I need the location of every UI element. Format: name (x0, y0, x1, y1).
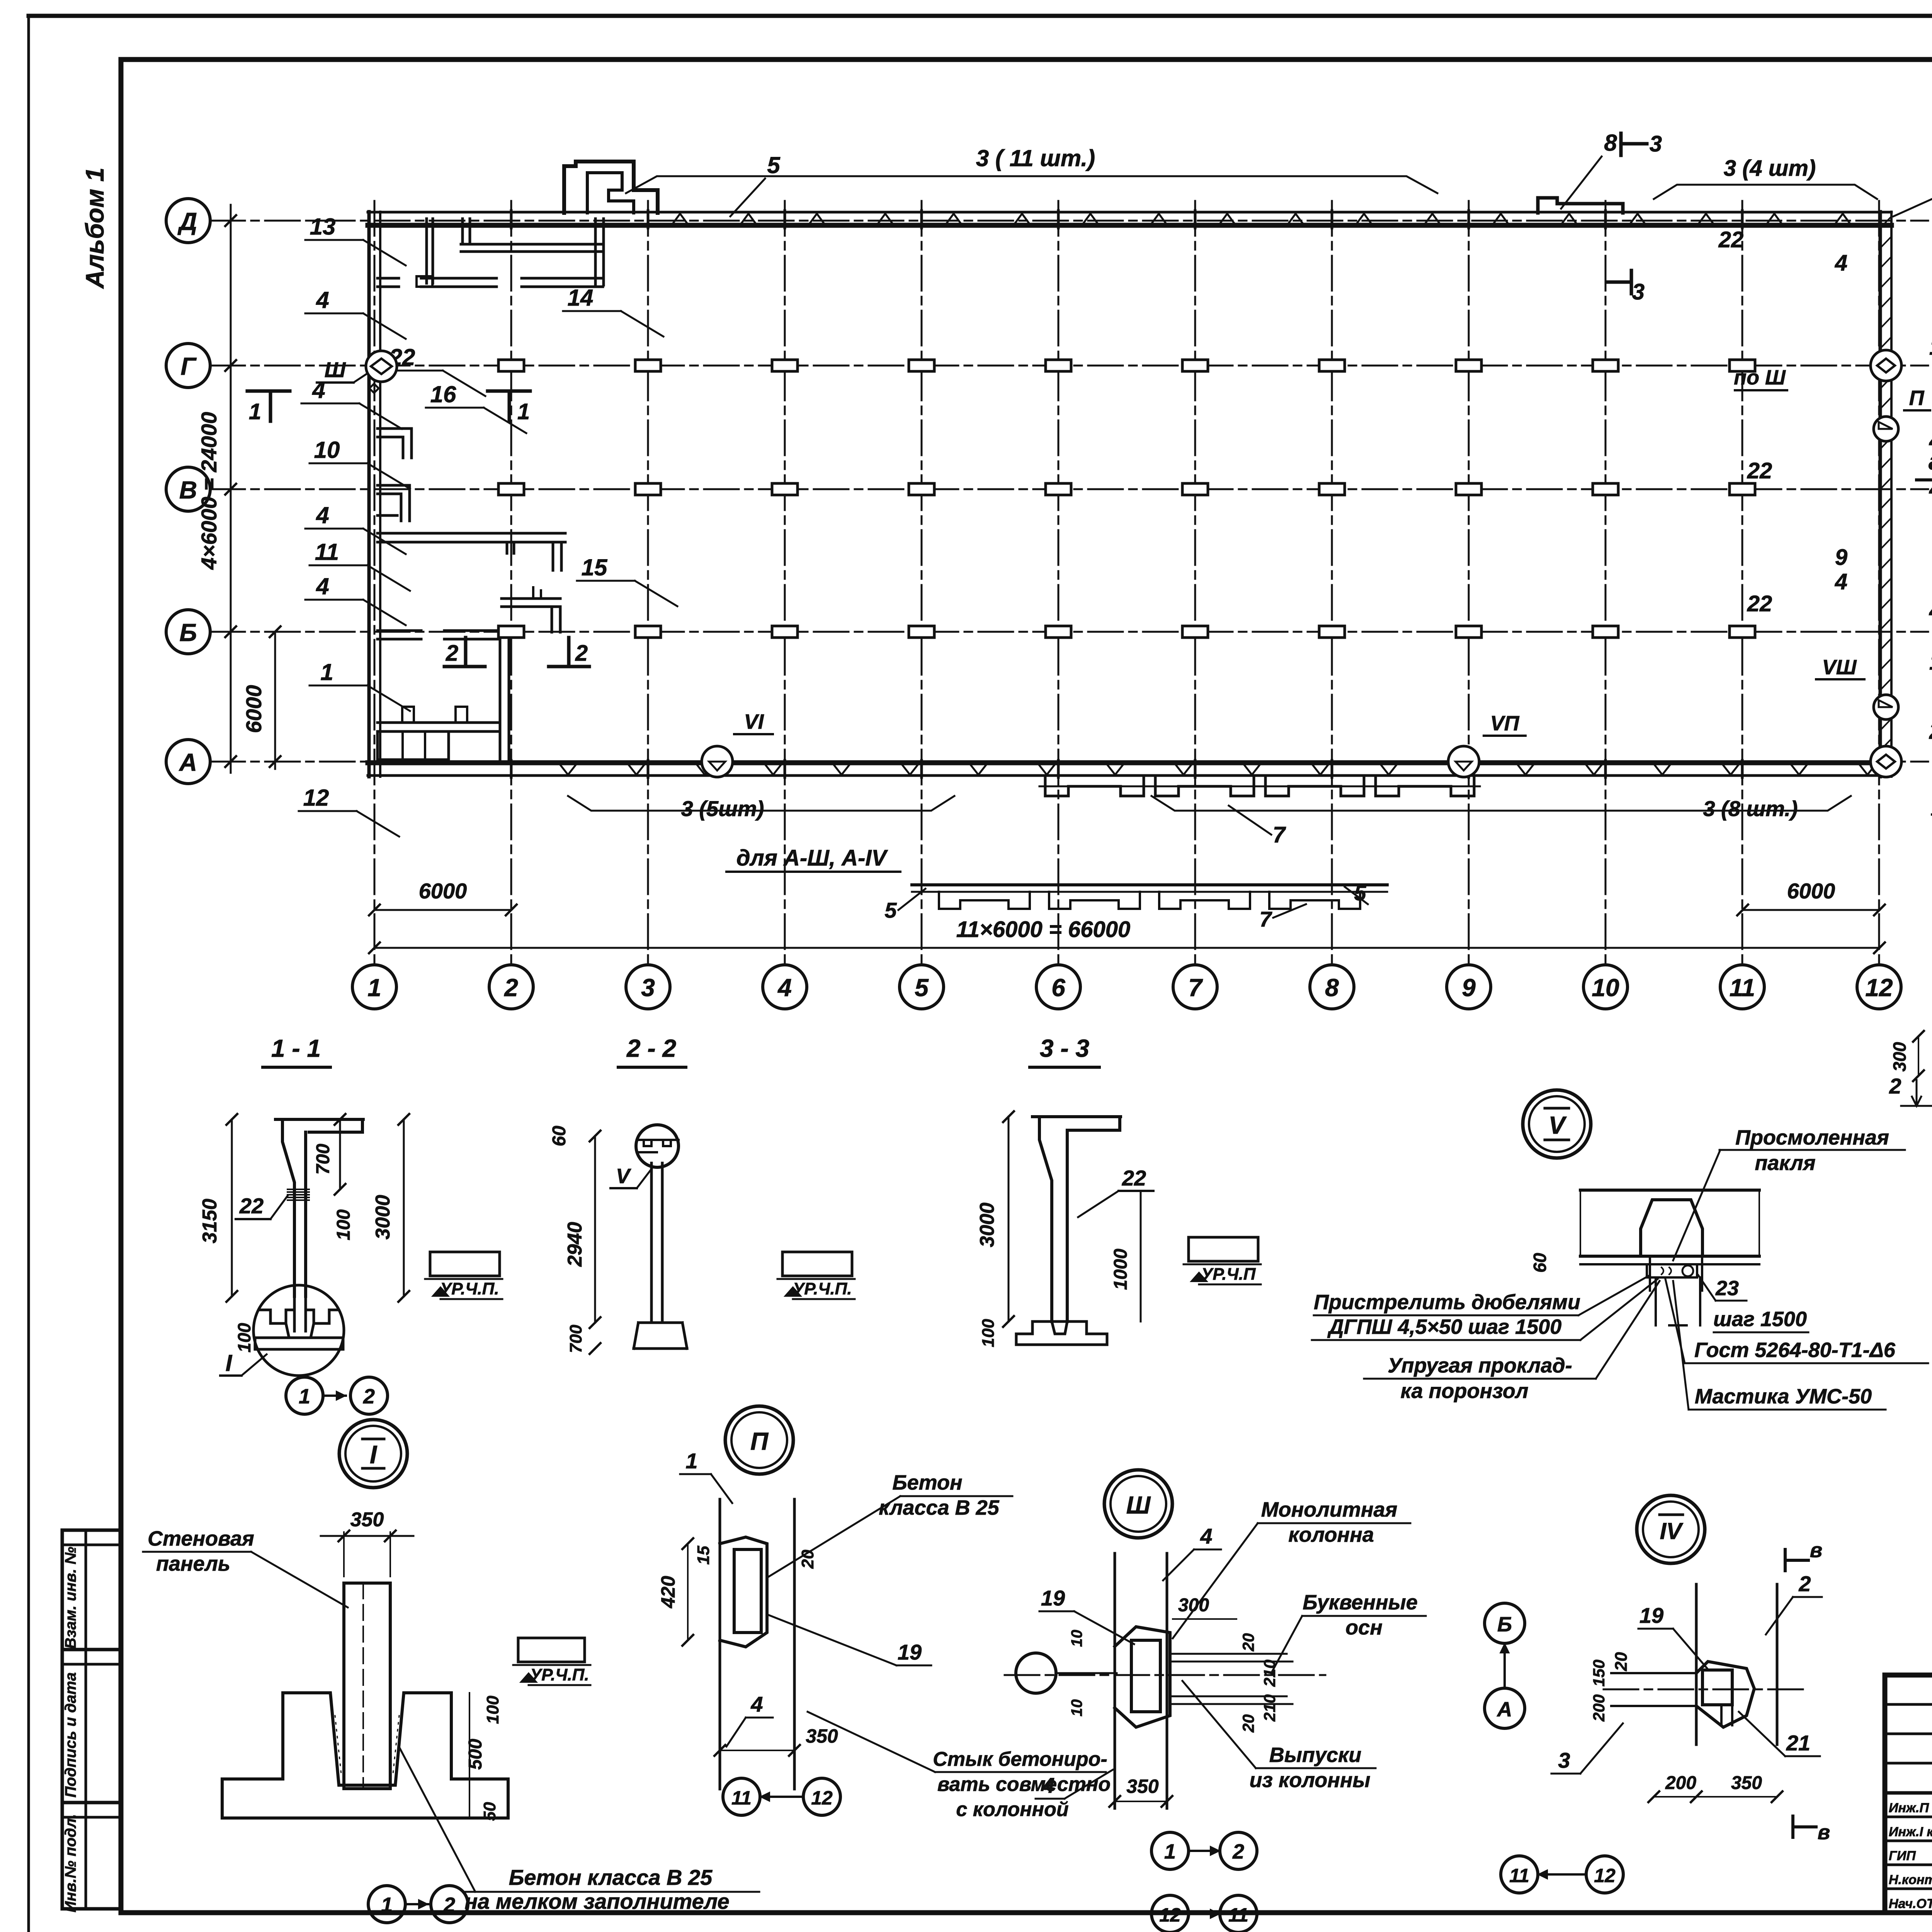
svg-text:2: 2 (446, 641, 458, 666)
svg-text:Выпуски: Выпуски (1269, 1743, 1362, 1767)
svg-text:вать совместно: вать совместно (937, 1773, 1111, 1796)
circle pairs detail III (1151, 1832, 1189, 1869)
svg-text:2: 2 (363, 1385, 375, 1408)
svg-text:5: 5 (767, 152, 781, 178)
svg-text:700: 700 (566, 1325, 585, 1353)
svg-text:11: 11 (731, 1787, 752, 1809)
detail V drawing: wall panel joint (1580, 1189, 1759, 1192)
section 1-1 dims (231, 1119, 233, 1296)
bottom wall panel joint marks (560, 764, 1876, 775)
svg-text:60: 60 (1530, 1253, 1550, 1273)
svg-text:22: 22 (1718, 227, 1744, 252)
svg-text:8: 8 (1604, 130, 1617, 156)
svg-text:на мелком заполнителе: на мелком заполнителе (464, 1889, 729, 1913)
svg-text:60: 60 (549, 1126, 570, 1146)
svg-text:Н.контр.: Н.контр. (1889, 1872, 1932, 1887)
svg-text:Г: Г (180, 352, 197, 380)
svg-text:300: 300 (1889, 1042, 1910, 1071)
wall anchor diamond item 22 (369, 384, 379, 393)
svg-text:Бетон класса В 25: Бетон класса В 25 (509, 1865, 713, 1889)
svg-text:Взам. инв. №: Взам. инв. № (62, 1547, 79, 1649)
detail III drawing (1114, 1553, 1116, 1808)
section 2-2 top detail circle with V (636, 1125, 679, 1167)
bottom bay dimension right 6000 (1743, 909, 1879, 911)
level mark detail I (518, 1638, 585, 1662)
svg-text:210: 210 (1260, 1694, 1279, 1722)
svg-text:А: А (1497, 1698, 1512, 1721)
circles 1-2 detail I (368, 1886, 405, 1923)
svg-text:4×6000 = 24000: 4×6000 = 24000 (197, 412, 221, 570)
panel (344, 1583, 390, 1789)
section 2-2 dims (594, 1136, 596, 1323)
small detail circles on right wall (1871, 350, 1901, 381)
svg-text:11: 11 (1228, 1904, 1248, 1926)
svg-text:Пристрелить дюбелями: Пристрелить дюбелями (1314, 1291, 1580, 1314)
panel joint ticks on outer walls (511, 211, 1742, 777)
svg-text:пакля: пакля (1755, 1151, 1815, 1175)
svg-text:3 (8 шт.): 3 (8 шт.) (1703, 796, 1798, 821)
svg-text:по Ш: по Ш (1734, 366, 1786, 389)
bottom labels (568, 796, 954, 811)
svg-text:19: 19 (1041, 1586, 1065, 1610)
svg-text:6000: 6000 (241, 685, 266, 733)
svg-text:I: I (226, 1350, 233, 1376)
svg-text:5: 5 (884, 898, 897, 922)
bracket 3 (11 pcs) (626, 176, 1437, 193)
svg-text:Альбом 1: Альбом 1 (80, 168, 109, 289)
svg-text:Б: Б (179, 619, 197, 646)
svg-text:2: 2 (1232, 1840, 1244, 1863)
detail IV drawing (1695, 1584, 1698, 1745)
bottom overall dimension 66000 (374, 947, 1879, 949)
svg-text:4: 4 (777, 974, 792, 1002)
circles 11-12 detail II (723, 1778, 760, 1815)
svg-text:3 ( 11 шт.): 3 ( 11 шт.) (976, 145, 1095, 171)
svg-text:ДГПШ 4,5×50 шаг 1500: ДГПШ 4,5×50 шаг 1500 (1327, 1315, 1562, 1338)
svg-text:3 (4 шт): 3 (4 шт) (1724, 156, 1816, 181)
C-partition item 16 (378, 429, 412, 458)
svg-text:3: 3 (1632, 279, 1645, 304)
svg-text:15: 15 (694, 1546, 713, 1565)
svg-text:11: 11 (1730, 974, 1755, 1002)
svg-text:3000: 3000 (976, 1202, 998, 1247)
svg-text:Упругая проклад-: Упругая проклад- (1388, 1354, 1572, 1377)
svg-text:Стык бетониро-: Стык бетониро- (933, 1748, 1107, 1770)
plan vertical axes chain lines (374, 201, 376, 965)
svg-text:20: 20 (1239, 1714, 1257, 1733)
svg-text:УР.Ч.П.: УР.Ч.П. (530, 1665, 589, 1684)
detail IV section marks в (1785, 1549, 1808, 1571)
svg-text:11: 11 (315, 539, 339, 565)
detail indicator circle IV (1637, 1495, 1705, 1563)
svg-text:12: 12 (811, 1787, 833, 1809)
svg-text:420: 420 (657, 1576, 679, 1609)
svg-text:в: в (1818, 1821, 1830, 1844)
svg-text:a - a: a - a (1929, 447, 1932, 475)
svg-text:19: 19 (1639, 1603, 1663, 1628)
detail IV circles Б А (1485, 1603, 1525, 1643)
dim 350 (343, 1532, 345, 1577)
svg-text:П: П (750, 1427, 769, 1455)
partition item 15 (502, 597, 560, 600)
svg-text:4: 4 (316, 287, 329, 313)
left margin stamp table (62, 1530, 121, 1909)
svg-text:150: 150 (1590, 1660, 1608, 1687)
svg-text:100: 100 (483, 1696, 502, 1724)
svg-text:12: 12 (1865, 974, 1893, 1002)
svg-text:7: 7 (1273, 822, 1286, 847)
svg-text:8: 8 (1325, 974, 1339, 1002)
svg-text:16: 16 (430, 381, 456, 407)
section 3-3 footing (1016, 1321, 1107, 1345)
svg-text:11: 11 (1509, 1865, 1529, 1886)
section 3-3 floor level box (1189, 1237, 1258, 1261)
svg-text:для А-Ш, А-IV: для А-Ш, А-IV (736, 845, 888, 871)
section 3-3 dims (1008, 1117, 1010, 1321)
svg-text:VШ: VШ (1822, 656, 1857, 679)
svg-text:Монолитная: Монолитная (1261, 1498, 1398, 1521)
svg-text:23: 23 (1715, 1277, 1739, 1300)
svg-text:1: 1 (249, 399, 261, 424)
svg-text:100: 100 (333, 1209, 354, 1240)
svg-text:200: 200 (1590, 1694, 1608, 1722)
svg-text:Подпись и дата: Подпись и дата (62, 1672, 79, 1798)
svg-text:3: 3 (1650, 131, 1662, 156)
svg-text:ка поронзол: ка поронзол (1400, 1379, 1528, 1403)
svg-text:6000: 6000 (419, 879, 467, 903)
detail indicator circle II (725, 1406, 793, 1474)
svg-text:Инж.I кат.: Инж.I кат. (1889, 1825, 1932, 1839)
detail indicator circle III (1104, 1470, 1172, 1538)
svg-text:5: 5 (915, 974, 929, 1002)
svg-text:2: 2 (443, 1893, 455, 1917)
section cut marks 2 (444, 638, 485, 667)
detail circle III on left wall (366, 351, 397, 382)
svg-text:12: 12 (1159, 1904, 1181, 1926)
svg-text:УР.Ч.П.: УР.Ч.П. (440, 1279, 499, 1298)
section 1-1 column (276, 1119, 363, 1296)
svg-text:1 - 1: 1 - 1 (271, 1034, 321, 1062)
svg-text:3150: 3150 (199, 1199, 221, 1243)
bottom wall of building (368, 760, 1891, 765)
left wall of building (367, 212, 371, 777)
svg-text:2: 2 (504, 974, 518, 1002)
svg-text:22: 22 (1122, 1166, 1146, 1190)
svg-text:Ш: Ш (325, 357, 346, 382)
svg-text:Просмоленная: Просмоленная (1735, 1126, 1889, 1149)
svg-text:3: 3 (641, 974, 655, 1002)
svg-text:I: I (370, 1440, 378, 1469)
svg-text:20: 20 (1612, 1652, 1631, 1671)
left overall dimension line (230, 205, 232, 773)
column footing marks on grid (498, 360, 524, 371)
interior partition walls top-left rooms (461, 243, 601, 246)
bottom wall external tabs (1045, 776, 1474, 796)
bracket 3 (4 pcs) (1654, 185, 1877, 199)
svg-text:22: 22 (1747, 591, 1772, 616)
svg-text:УР.Ч.П.: УР.Ч.П. (793, 1279, 852, 1298)
svg-text:VI: VI (744, 710, 764, 733)
sheet outer edge left (27, 16, 30, 1932)
loose panel strip drawing (912, 883, 1387, 886)
section 1-1 floor level box (430, 1252, 500, 1276)
svg-text:500: 500 (465, 1739, 486, 1770)
svg-text:в: в (1810, 1539, 1823, 1562)
svg-text:21: 21 (1786, 1731, 1810, 1755)
section cut marks 1 (247, 391, 290, 421)
svg-text:А: А (179, 748, 197, 776)
svg-text:1: 1 (299, 1385, 310, 1408)
circles 11-12 detail IV (1501, 1856, 1538, 1893)
svg-text:Д: Д (177, 207, 197, 235)
svg-text:20: 20 (1239, 1633, 1257, 1652)
main title block frame (1885, 1675, 1932, 1913)
svg-text:22: 22 (239, 1194, 264, 1218)
section 1-1 anchor hatch item22 (287, 1189, 309, 1200)
detail circles VI VII on bottom wall (702, 746, 733, 777)
svg-text:4: 4 (316, 502, 329, 528)
svg-text:14: 14 (568, 285, 594, 311)
svg-text:1: 1 (685, 1449, 697, 1473)
svg-text:10: 10 (1592, 974, 1619, 1002)
axis circles 1-2 below section 1-1 (286, 1377, 323, 1414)
svg-text:13: 13 (310, 214, 336, 240)
svg-text:4: 4 (312, 377, 325, 403)
detail indicator circle V (1523, 1090, 1591, 1158)
svg-text:V: V (616, 1165, 631, 1188)
svg-text:210: 210 (1260, 1660, 1279, 1687)
svg-text:12: 12 (1594, 1865, 1616, 1886)
leader circle (1016, 1653, 1056, 1693)
svg-text:9: 9 (1462, 974, 1476, 1002)
svg-text:19: 19 (898, 1640, 922, 1664)
left bay dimension 6000 (274, 632, 276, 769)
svg-text:Бетон: Бетон (892, 1471, 962, 1494)
svg-text:Буквенные: Буквенные (1303, 1591, 1418, 1614)
svg-text:50: 50 (480, 1802, 499, 1821)
svg-text:Инв.№ подл.: Инв.№ подл. (62, 1814, 79, 1913)
svg-text:3 - 3: 3 - 3 (1040, 1034, 1089, 1062)
svg-text:6: 6 (1051, 974, 1065, 1002)
footing of detail I (222, 1693, 508, 1818)
svg-text:10: 10 (1068, 1699, 1085, 1717)
bottom bay dimension left 6000 (374, 909, 511, 911)
svg-text:1: 1 (1929, 335, 1932, 360)
svg-text:2: 2 (1889, 1074, 1901, 1098)
section 2-2 column (650, 1163, 653, 1323)
svg-text:15: 15 (582, 554, 608, 580)
svg-text:1: 1 (320, 659, 333, 685)
svg-text:П: П (1909, 386, 1925, 410)
number axis circles (352, 965, 396, 1009)
svg-text:20: 20 (798, 1549, 817, 1569)
svg-text:1: 1 (381, 1893, 393, 1917)
svg-text:9: 9 (1835, 545, 1847, 570)
svg-text:колонна: колонна (1288, 1523, 1374, 1546)
wall on axis Б (378, 629, 421, 632)
svg-text:7: 7 (1259, 907, 1272, 931)
section 3-3 column with corbel (1032, 1117, 1121, 1321)
svg-text:Б: Б (1497, 1613, 1512, 1636)
svg-text:УР.Ч.П: УР.Ч.П (1201, 1265, 1256, 1284)
rooms below axis Б (499, 639, 502, 761)
svg-text:панель: панель (156, 1552, 230, 1575)
dashed outlet lines (1170, 1653, 1287, 1655)
svg-text:7: 7 (1188, 974, 1203, 1002)
svg-text:Нач.ОТЭП: Нач.ОТЭП (1889, 1896, 1932, 1911)
roof vestibule outline at top (564, 162, 658, 213)
svg-text:2: 2 (1798, 1571, 1811, 1596)
svg-text:1: 1 (367, 974, 381, 1002)
svg-text:класса В 25: класса В 25 (879, 1496, 999, 1519)
svg-text:В: В (179, 476, 197, 504)
letter axis circles (166, 199, 210, 243)
svg-text:2 - 2: 2 - 2 (626, 1034, 676, 1062)
plan horizontal axes chain lines (210, 220, 1928, 222)
svg-text:1: 1 (1164, 1840, 1176, 1863)
svg-text:350: 350 (806, 1725, 838, 1747)
svg-text:700: 700 (313, 1144, 333, 1175)
svg-text:Стеновая: Стеновая (148, 1527, 254, 1550)
svg-text:из колонны: из колонны (1249, 1769, 1370, 1792)
svg-text:3: 3 (1558, 1748, 1570, 1772)
svg-text:100: 100 (234, 1323, 254, 1352)
svg-text:V: V (1549, 1111, 1567, 1139)
top wall of building (368, 211, 1891, 214)
svg-text:4: 4 (1835, 569, 1847, 594)
svg-text:1: 1 (1929, 650, 1932, 675)
svg-text:350: 350 (1126, 1776, 1159, 1797)
section cut marks 3 top (1621, 133, 1647, 155)
svg-text:4: 4 (1200, 1524, 1212, 1548)
svg-text:10: 10 (1068, 1630, 1085, 1647)
svg-text:350: 350 (1731, 1773, 1762, 1793)
top wall panel joint marks (672, 214, 1851, 225)
svg-text:4: 4 (1929, 598, 1932, 623)
C-partition item 10 (378, 485, 410, 521)
right wall hatch (1880, 216, 1891, 770)
svg-text:ГИП: ГИП (1889, 1849, 1916, 1863)
svg-text:шаг 1500: шаг 1500 (1713, 1308, 1807, 1331)
section 2-2 floor level box (782, 1252, 852, 1276)
top bump right small (1538, 198, 1623, 213)
svg-text:6000: 6000 (1787, 879, 1835, 903)
svg-text:100: 100 (979, 1319, 998, 1347)
svg-text:1000: 1000 (1111, 1248, 1131, 1290)
svg-text:Инж.П кат: Инж.П кат (1889, 1801, 1932, 1815)
svg-text:1: 1 (517, 399, 530, 424)
svg-text:350: 350 (350, 1509, 384, 1531)
svg-text:300: 300 (1178, 1595, 1209, 1616)
svg-text:VП: VП (1490, 712, 1520, 735)
section 1-1 footing in detail circle (253, 1285, 344, 1376)
svg-text:IV: IV (1660, 1518, 1684, 1544)
svg-text:12: 12 (303, 785, 329, 811)
svg-text:200: 200 (1665, 1773, 1696, 1793)
svg-text:2: 2 (575, 641, 588, 666)
svg-text:3000: 3000 (372, 1195, 394, 1240)
svg-text:22: 22 (1747, 458, 1772, 483)
svg-text:с колонной: с колонной (956, 1798, 1068, 1821)
rooms between axes В and Б (378, 532, 565, 535)
svg-text:3 (5шт): 3 (5шт) (681, 796, 764, 821)
svg-text:Гост 5264-80-Т1-Δ6: Гост 5264-80-Т1-Δ6 (1694, 1338, 1896, 1362)
svg-text:осн: осн (1345, 1616, 1383, 1639)
detail indicator circle I (339, 1420, 407, 1488)
svg-text:11×6000 = 66000: 11×6000 = 66000 (956, 917, 1131, 942)
svg-text:4: 4 (1835, 250, 1847, 276)
svg-text:10: 10 (314, 437, 340, 463)
sheet outer edge top (29, 14, 1932, 18)
svg-text:2: 2 (1929, 719, 1932, 744)
svg-text:2940: 2940 (564, 1222, 586, 1267)
svg-text:4: 4 (1042, 1773, 1054, 1798)
svg-text:4: 4 (750, 1692, 763, 1716)
svg-text:4: 4 (316, 573, 329, 599)
svg-text:Ш: Ш (1126, 1491, 1151, 1519)
svg-text:Мастика УМС-50: Мастика УМС-50 (1695, 1385, 1872, 1408)
joint packing (1647, 1264, 1697, 1277)
right wall of building (1879, 212, 1882, 777)
